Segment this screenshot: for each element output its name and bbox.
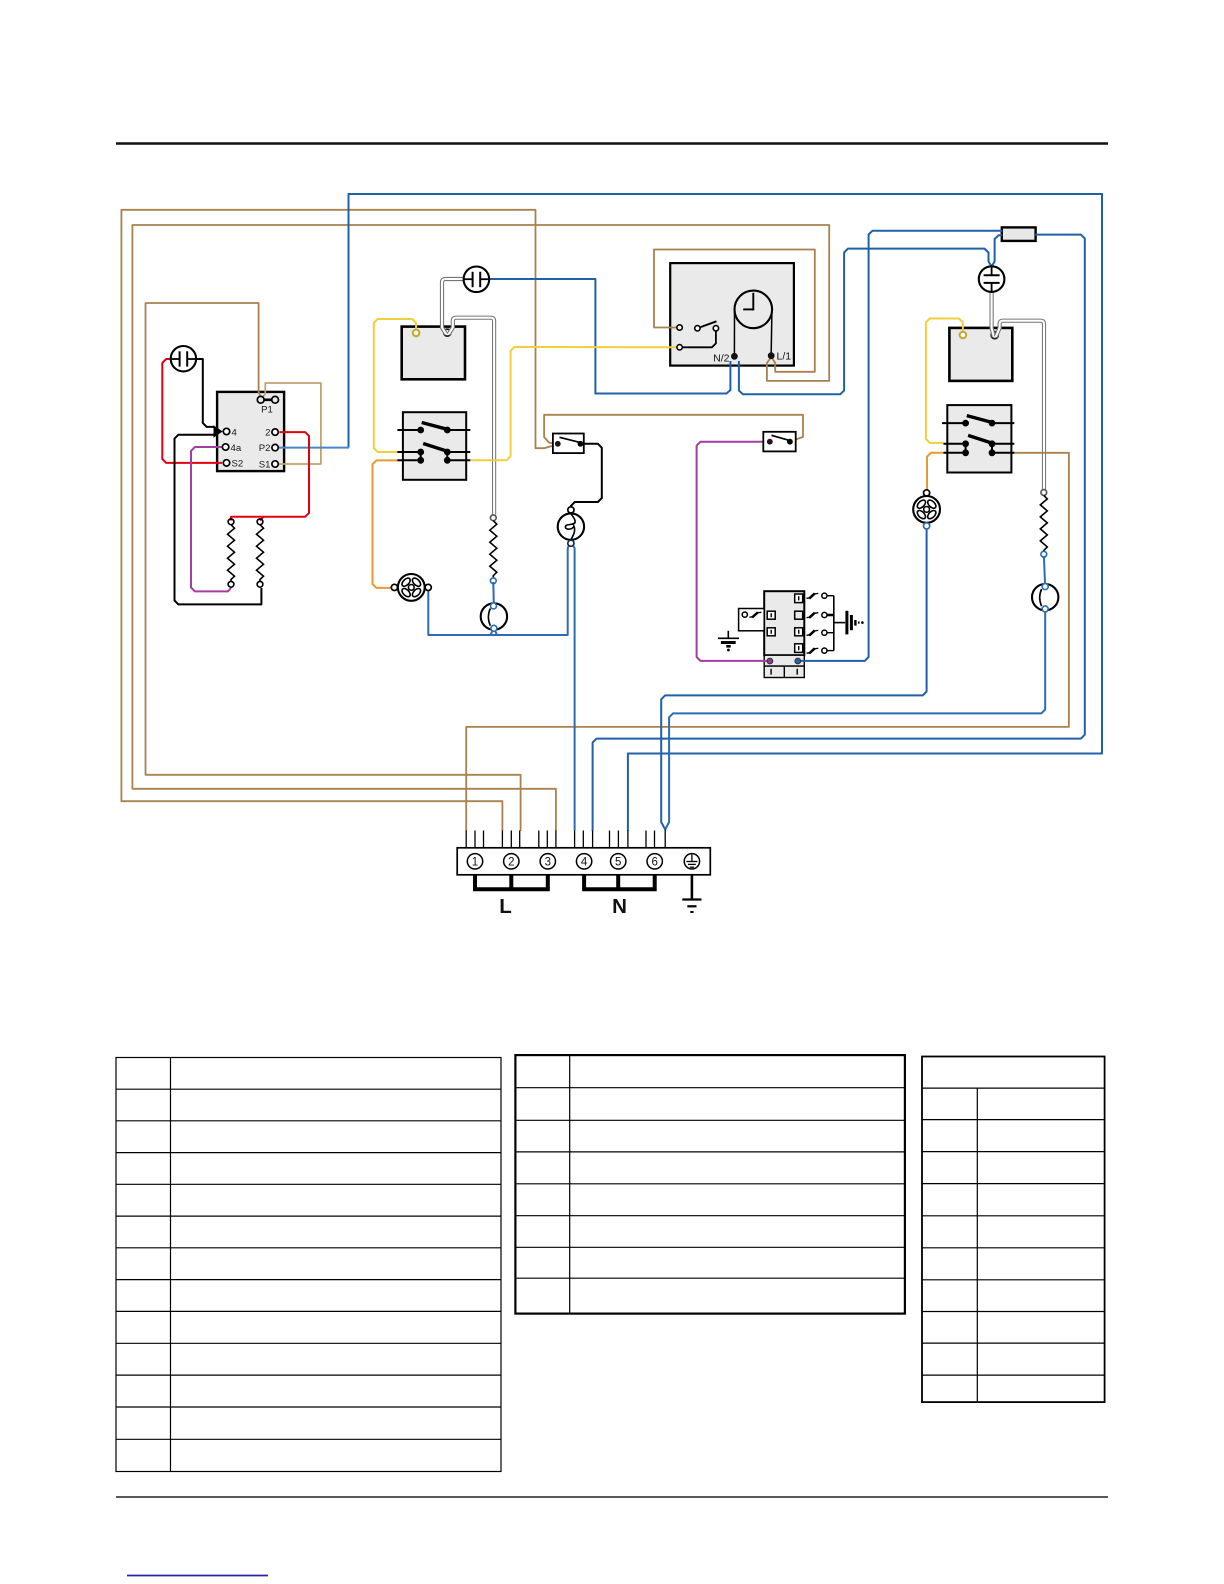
right cooling fan motor xyxy=(913,490,940,529)
svg-text:2: 2 xyxy=(265,428,270,439)
wire yellow regulator box to grill switch row2 xyxy=(374,319,416,452)
grill element xyxy=(490,515,497,584)
svg-text:P1: P1 xyxy=(261,405,273,416)
footer link underline xyxy=(127,1575,268,1577)
ignition unit internals xyxy=(739,594,803,652)
thermal cutout symbol xyxy=(171,346,196,371)
wire brown timer L/1 to mains terminal 3 xyxy=(132,225,829,831)
wire orange oven switch row3 to right fan xyxy=(927,453,944,491)
wire blue middle lamp to timer N/2 left leg xyxy=(490,279,731,394)
oven selector switch body xyxy=(947,405,1011,472)
oven indicator lamp C xyxy=(1032,584,1058,612)
regulator terminal S1 xyxy=(272,461,278,467)
oven element xyxy=(1040,490,1047,557)
wire white oven indicator lamp to oven thermostat hook xyxy=(992,293,994,337)
wire blue bus to left fan motor xyxy=(428,591,490,636)
legend table right xyxy=(922,1057,1105,1403)
regulator terminal 4 arrow xyxy=(214,425,223,437)
svg-text:S2: S2 xyxy=(232,459,244,470)
energy regulator details xyxy=(214,396,279,470)
timer clock xyxy=(734,291,772,354)
hotplate element 2 xyxy=(257,519,264,587)
PE earth lead xyxy=(682,875,701,912)
wire yellow thermostat to oven switch row2 xyxy=(926,319,963,443)
wire blue timer N/2 right leg to control lamp xyxy=(739,249,992,395)
N bridge bus xyxy=(582,875,657,890)
grill indicator lamp A xyxy=(481,603,507,631)
wire blue indicator A hook xyxy=(491,630,498,635)
svg-text:1: 1 xyxy=(472,857,478,869)
wire red thermal cutout to regulator S2 xyxy=(162,359,222,463)
grill indicator symbol xyxy=(464,267,490,293)
svg-text:L/1: L/1 xyxy=(777,351,792,363)
wire blue right lamp to mains terminal 6 xyxy=(665,610,1045,830)
grill thermostat yellow terminal xyxy=(413,330,420,337)
wire blue oven lamp hook to blue bus xyxy=(497,544,570,636)
wire black oven lamp to door switch xyxy=(571,444,602,508)
svg-text:P2: P2 xyxy=(259,443,271,454)
wire blue grill element to indicator A xyxy=(492,582,495,606)
wire black timer switch internal link xyxy=(680,332,716,348)
ignition spark gaps xyxy=(742,593,845,653)
oven thermostat body xyxy=(949,328,1012,381)
wire blue right fan to mains terminal 6 xyxy=(661,528,926,830)
svg-text:N/2: N/2 xyxy=(713,353,730,365)
terminal ticks xyxy=(466,830,665,848)
svg-text:L: L xyxy=(499,895,512,918)
legend table left xyxy=(116,1058,501,1472)
L bridge bus xyxy=(473,875,550,890)
wire brown oven switch to mains terminal 1 xyxy=(466,453,1069,831)
wire blue oven lamp to mains terminal 4 xyxy=(572,544,575,831)
white wires xyxy=(442,279,1044,515)
svg-text:2: 2 xyxy=(508,857,514,869)
oven thermostat hook terminal xyxy=(991,332,998,339)
wire white oven thermostat hook to oven element xyxy=(996,321,1044,491)
oven lamp xyxy=(558,507,584,547)
wire blue top element to right lamp xyxy=(1044,556,1045,586)
wire white grill indicator to grill thermostat hook xyxy=(442,279,464,334)
hotplate element 1 xyxy=(228,519,235,587)
wire white grill thermostat hook to grill element xyxy=(449,318,495,515)
wire light-blue regulator P2 lead xyxy=(277,447,349,449)
regulator terminal 4a xyxy=(222,444,228,450)
svg-text:4: 4 xyxy=(232,427,238,438)
component bodies xyxy=(217,227,1036,677)
bottom rule xyxy=(116,1496,1108,1498)
wire brown regulator P1 to mains terminal 2 xyxy=(146,303,521,831)
wire yellow grill switch row3 to timer contact xyxy=(471,347,678,460)
svg-text:4: 4 xyxy=(581,857,588,869)
L N labels xyxy=(499,895,627,918)
wire purple door switch to ignition unit xyxy=(697,442,768,661)
wire blue interference suppressor to ignition unit xyxy=(800,231,1003,661)
wire blue suppressor lower lead to control lamp xyxy=(992,235,1003,266)
timer body xyxy=(670,263,794,366)
mains terminal strip xyxy=(457,848,710,875)
wire tan regulator S1 loop to P1 xyxy=(262,383,321,464)
svg-text:4a: 4a xyxy=(231,443,242,454)
terminal circles xyxy=(467,854,699,869)
svg-text:3: 3 xyxy=(545,857,551,869)
grill selector switch body xyxy=(403,412,466,480)
left cooling fan motor xyxy=(391,574,431,601)
legend table middle xyxy=(515,1055,905,1314)
ignition terminal purple xyxy=(767,658,773,664)
timer terminal L/1 xyxy=(768,353,774,359)
timer terminal N/2 xyxy=(732,353,738,359)
energy regulator body xyxy=(217,392,284,471)
svg-text:6: 6 xyxy=(651,857,657,869)
wire blue outer loop terminal 5 xyxy=(349,194,1103,831)
timer switch contacts xyxy=(677,321,719,350)
svg-text:N: N xyxy=(612,895,627,918)
oven control lamp symbol xyxy=(979,266,1005,292)
wire red branch to element 2 xyxy=(260,517,264,521)
wire brown regulator terminal2 to mains terminal 2 via switch S3 xyxy=(121,210,555,831)
grill selector switch contacts xyxy=(397,423,470,464)
top rule xyxy=(116,142,1108,144)
grill door switch xyxy=(553,434,584,454)
regulator terminal P2 xyxy=(272,444,278,450)
oven selector switch contacts xyxy=(942,416,1014,456)
regulator P1 link xyxy=(262,398,274,401)
wire red regulator terminal 2 to hotplate elements xyxy=(231,432,309,520)
regulator terminal 2 xyxy=(272,429,278,435)
ignition chassis ground xyxy=(718,631,739,651)
wire brown timer L/1 to timer switch contact xyxy=(654,250,815,372)
ignition unit body xyxy=(764,591,804,655)
regulator terminal S2 xyxy=(223,460,229,466)
svg-text:S1: S1 xyxy=(259,460,271,471)
wire black thermal cutout to regulator 4 xyxy=(196,359,214,427)
wire black regulator 4 to hotplate element xyxy=(175,435,262,605)
ignition earth right xyxy=(847,611,863,635)
wire blue suppressor to mains terminal 4 xyxy=(593,235,1085,831)
wire brown door switch to grill switch S3 xyxy=(544,415,803,444)
grill thermostat body xyxy=(402,327,465,380)
oven door switch xyxy=(763,432,795,452)
timer terminal labels xyxy=(713,351,791,365)
grill thermostat hook terminal xyxy=(444,329,451,336)
wire purple regulator 4a to hotplate element xyxy=(191,447,231,591)
ignition terminal blue xyxy=(795,658,801,664)
interference suppressor body xyxy=(1002,227,1036,241)
oven thermostat yellow terminal xyxy=(960,332,967,339)
wire orange grill switch row3 to left fan xyxy=(373,460,401,588)
svg-text:5: 5 xyxy=(615,857,621,869)
